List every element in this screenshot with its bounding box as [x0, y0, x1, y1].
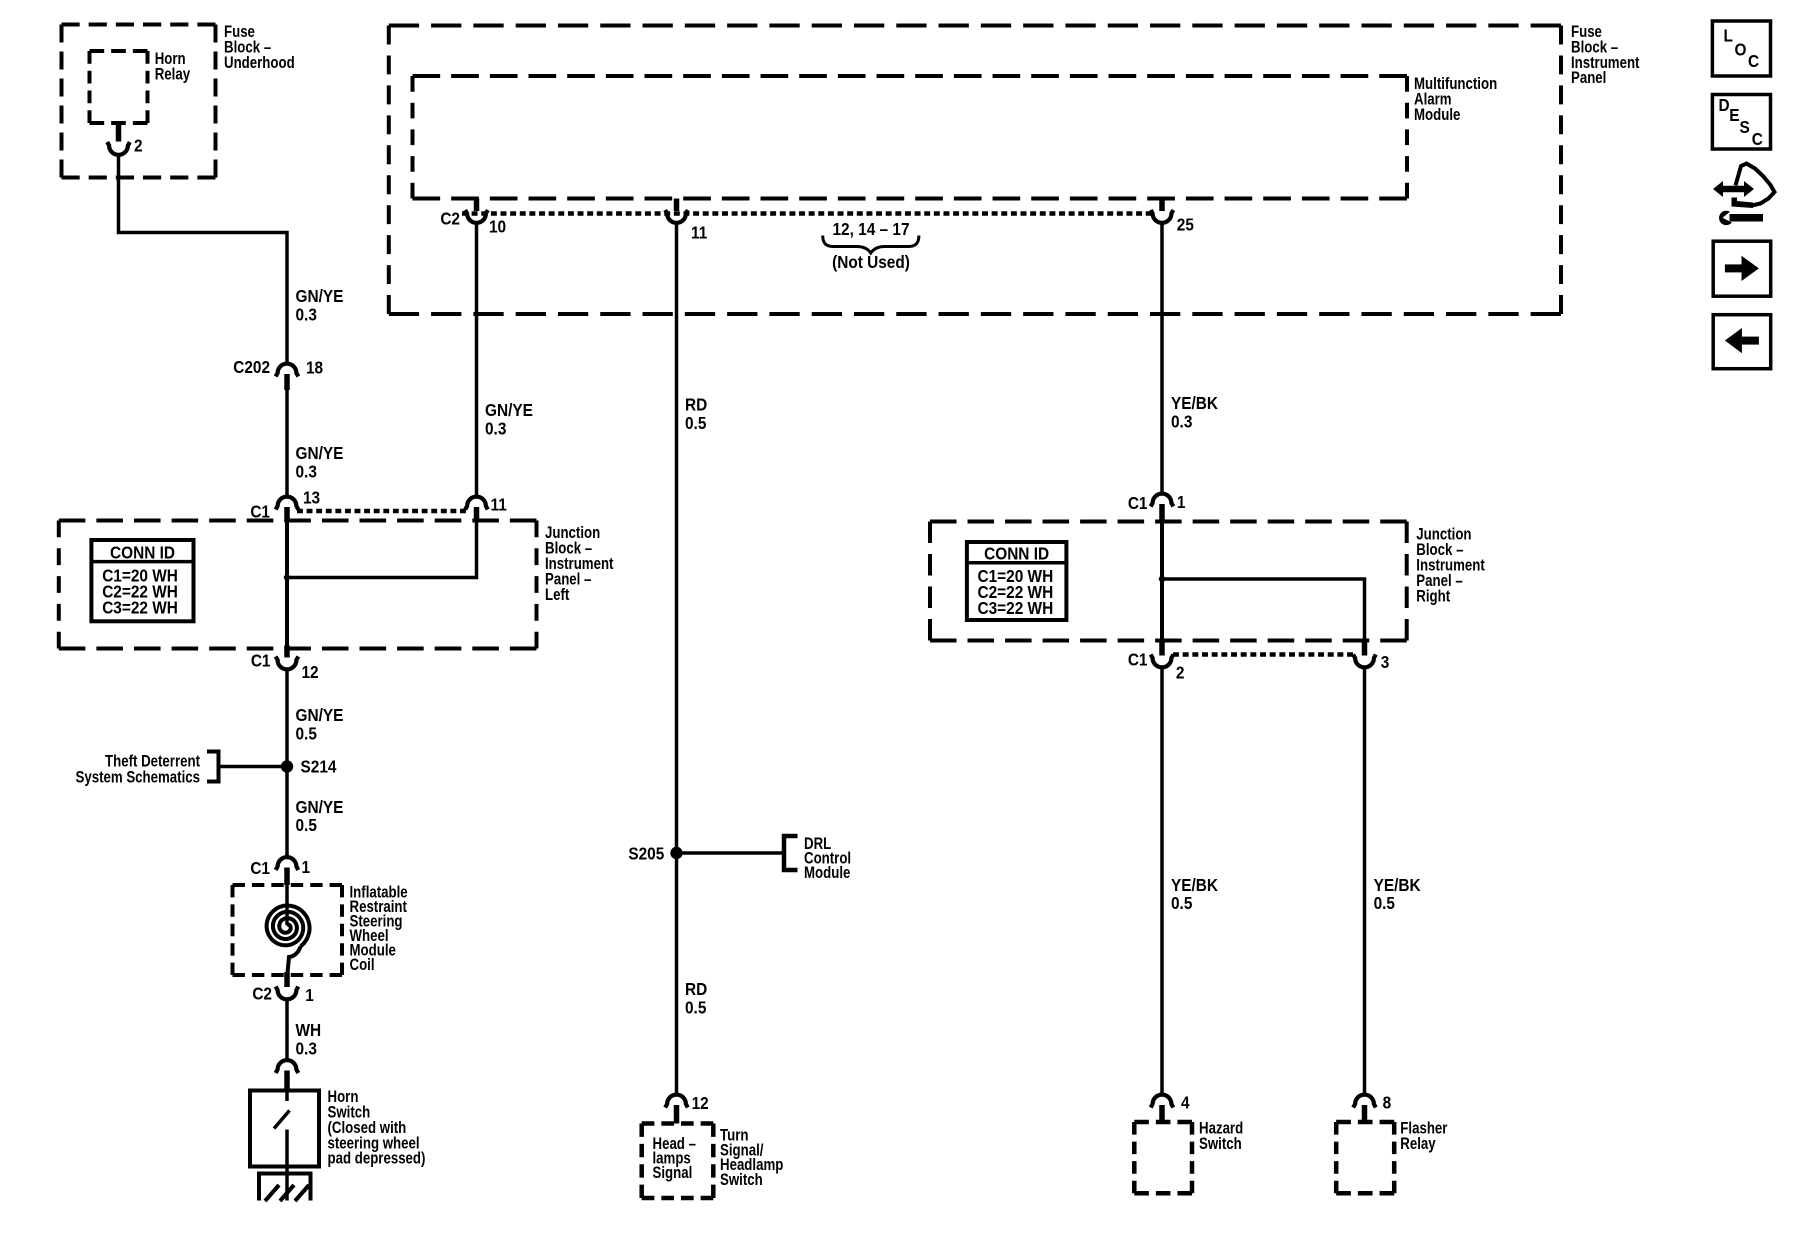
coil spiral symbol: [267, 885, 310, 973]
wire: C2/1 to horn switch: [285, 1000, 289, 1060]
svg-text:Signal: Signal: [653, 1164, 693, 1183]
label C2 (coil): [252, 985, 272, 1004]
dashed link C1/13 to pin 11: [297, 509, 466, 514]
svg-text:0.5: 0.5: [296, 816, 317, 835]
svg-text:1: 1: [1177, 493, 1186, 512]
svg-text:8: 8: [1383, 1094, 1392, 1113]
pin number 18: [306, 359, 323, 378]
connector C1 pin 12 stub: [284, 646, 290, 658]
label (Not Used): [832, 253, 910, 272]
svg-text:1: 1: [305, 986, 314, 1005]
label: Junction Block - Instrument Panel - Left: [545, 524, 613, 605]
wire label GN/YE 0.3 (lower): [296, 444, 344, 481]
connector C1 pin 1 arc: [276, 857, 299, 870]
connector C2 pin 1 cup: [276, 987, 299, 1000]
svg-text:0.5: 0.5: [1374, 894, 1395, 913]
svg-text:S214: S214: [301, 758, 338, 777]
svg-text:O: O: [1735, 41, 1747, 60]
svg-text:C1: C1: [1128, 494, 1148, 513]
svg-text:11: 11: [491, 496, 507, 515]
svg-text:Relay: Relay: [155, 65, 191, 84]
pin number 1 (right): [1177, 493, 1186, 512]
junction block left internal wire (vertical): [285, 521, 289, 649]
wire: C1/2 down to hazard switch: [1160, 668, 1164, 1095]
conn id table (right): [967, 542, 1067, 620]
wire: pin 3 down to flasher relay: [1363, 668, 1367, 1095]
junction block right internal wire (vertical): [1160, 521, 1164, 641]
splice S205: [670, 847, 682, 859]
wire label GN/YE 0.5 (below S214): [296, 798, 344, 835]
svg-text:4: 4: [1181, 1094, 1190, 1113]
svg-text:pad depressed): pad depressed): [328, 1149, 426, 1168]
label C1 (pin13): [250, 503, 270, 522]
junction node (right block): [1159, 576, 1165, 582]
svg-text:0.3: 0.3: [296, 1039, 317, 1058]
label: Fuse Block - Underhood: [224, 23, 295, 73]
connector C1 pin 12 cup: [276, 657, 299, 670]
svg-text:0.5: 0.5: [685, 414, 706, 433]
label 12, 14 - 17: [832, 220, 909, 239]
junction block right branch wire: [1162, 579, 1365, 641]
svg-text:25: 25: [1177, 216, 1194, 235]
svg-text:Left: Left: [545, 585, 569, 604]
label C1 (pin12): [251, 652, 271, 671]
pin number 2 (right): [1176, 664, 1185, 683]
theft deterrent bracket: [207, 752, 219, 782]
svg-text:2: 2: [1176, 664, 1185, 683]
svg-text:C: C: [1752, 130, 1763, 149]
svg-text:C2: C2: [252, 985, 272, 1004]
flasher relay connector arc: [1353, 1095, 1376, 1108]
fuse block - underhood (dashed box): [62, 25, 216, 178]
wire: horn relay pin 2 to C202: [119, 155, 288, 362]
svg-text:D: D: [1719, 96, 1730, 115]
svg-text:YE/BK: YE/BK: [1171, 876, 1218, 895]
connector C1 pin 13 arc: [276, 497, 299, 510]
junction pin 3 stub: [1362, 641, 1368, 656]
svg-text:13: 13: [303, 489, 320, 508]
pin number 2: [134, 137, 143, 156]
svg-text:WH: WH: [296, 1021, 322, 1040]
wire label WH 0.3: [296, 1021, 322, 1058]
connector C1 pin 1 stub (right): [1159, 504, 1165, 521]
svg-text:11: 11: [691, 224, 707, 243]
label S214: [301, 758, 338, 777]
wire label YE/BK 0.3: [1171, 394, 1218, 431]
hazard switch (dashed box): [1134, 1122, 1192, 1193]
svg-text:3: 3: [1381, 653, 1390, 672]
wire label GN/YE 0.5 (above S214): [296, 706, 344, 743]
svg-text:GN/YE: GN/YE: [296, 287, 344, 306]
svg-text:E: E: [1729, 106, 1739, 125]
svg-text:0.5: 0.5: [296, 724, 317, 743]
not-used brace: [823, 236, 919, 254]
hazard switch connector arc: [1151, 1095, 1174, 1108]
svg-text:CONN ID: CONN ID: [110, 543, 175, 562]
conn id table (left): [91, 540, 193, 621]
label: Horn Switch (Closed with steering wheel pad depressed): [328, 1088, 426, 1169]
label C1 (pin1): [250, 859, 270, 878]
pin number 12 (headlamps): [692, 1094, 709, 1113]
module pin 11 stub: [674, 199, 680, 212]
horn switch box: [250, 1091, 319, 1167]
pin number 11 (module): [691, 224, 707, 243]
pin number 3: [1381, 653, 1390, 672]
fuse block - instrument panel (dashed box): [389, 26, 1561, 315]
label S205: [628, 845, 664, 864]
pin number 10: [489, 218, 506, 237]
svg-text:0.5: 0.5: [1171, 894, 1192, 913]
junction pin 11 arc: [465, 497, 488, 510]
svg-text:0.5: 0.5: [685, 998, 706, 1017]
label: Junction Block - Instrument Panel - Right: [1416, 525, 1484, 606]
svg-text:2: 2: [134, 137, 143, 156]
wire: module pin 25 down to C1/1 right: [1160, 224, 1164, 494]
wire label GN/YE 0.3 (pin10 wire): [485, 401, 533, 438]
svg-text:System Schematics: System Schematics: [76, 768, 200, 787]
flasher relay connector stub: [1362, 1105, 1368, 1122]
connector C202 stub: [284, 374, 290, 390]
horn relay (dashed box): [90, 51, 148, 123]
connector C1 pin 1 stub: [284, 868, 290, 886]
wire: S205 to DRL bracket: [680, 851, 785, 855]
svg-text:YE/BK: YE/BK: [1374, 876, 1421, 895]
svg-text:Underhood: Underhood: [224, 53, 295, 72]
label C1 (right pin1): [1128, 494, 1148, 513]
svg-text:YE/BK: YE/BK: [1171, 394, 1218, 413]
head-lamps signal (dashed box): [642, 1124, 714, 1199]
svg-text:C1: C1: [251, 652, 271, 671]
wire: C202 to C1/13: [285, 390, 289, 496]
horn relay pin 2 stub: [116, 123, 122, 142]
drl bracket: [784, 836, 798, 870]
svg-text:Coil: Coil: [350, 956, 375, 975]
connector C2 pin 1 stub: [284, 972, 290, 987]
svg-text:18: 18: [306, 359, 323, 378]
wire label RD 0.5 (upper): [685, 396, 707, 433]
svg-text:12: 12: [302, 663, 319, 682]
label: Turn Signal/Headlamp Switch: [720, 1126, 783, 1189]
connector C1 pin 13 stub: [284, 507, 290, 521]
horn switch blade: [274, 1111, 290, 1129]
label: Flasher Relay: [1400, 1119, 1447, 1153]
wire label YE/BK 0.5 (left): [1171, 876, 1218, 913]
svg-text:C3=22 WH: C3=22 WH: [978, 599, 1054, 618]
icon box DESC: [1712, 95, 1770, 150]
module pin 25 stub: [1159, 199, 1165, 212]
pin number 1 (coil): [302, 858, 311, 877]
label C1 (pin2): [1128, 651, 1148, 670]
dashed link C1/2 to pin 3: [1173, 652, 1353, 657]
module pin 25 cup: [1151, 210, 1174, 223]
svg-text:S205: S205: [628, 845, 664, 864]
icon box arrow left: [1713, 315, 1771, 369]
inflatable restraint coil (dashed box): [233, 885, 343, 975]
svg-text:Right: Right: [1416, 587, 1450, 606]
junction node (left block): [284, 574, 290, 580]
svg-text:Module: Module: [1414, 106, 1460, 125]
wire: module pin 10 down to junction pin 11: [475, 224, 479, 497]
icon box arrow right: [1713, 241, 1771, 296]
svg-text:C2: C2: [440, 210, 460, 229]
label C202: [233, 358, 270, 377]
pin number 12: [302, 663, 319, 682]
pin number 25: [1177, 216, 1194, 235]
connector C1 pin 2 cup: [1151, 655, 1174, 668]
splice S214: [281, 760, 293, 772]
svg-text:Panel: Panel: [1571, 69, 1606, 88]
headlamps signal connector arc: [665, 1095, 688, 1108]
junction block - instrument panel - right (dashed box): [930, 522, 1407, 641]
label: Fuse Block - Instrument Panel: [1571, 23, 1639, 88]
svg-text:RD: RD: [685, 980, 707, 999]
svg-text:C: C: [1748, 52, 1759, 71]
horn switch connector stub: [284, 1071, 290, 1091]
wire: module pin 11 down to headlamps signal: [675, 224, 679, 1095]
svg-text:C202: C202: [233, 358, 270, 377]
module pin 10 stub: [474, 199, 480, 212]
multifunction alarm module (dashed box): [413, 76, 1408, 199]
headlamps signal connector stub: [674, 1105, 680, 1124]
icon box LOC: [1712, 21, 1770, 76]
svg-text:1: 1: [302, 858, 311, 877]
label: Multifunction Alarm Module: [1414, 75, 1497, 125]
wire: C1/12 to S214: [285, 670, 289, 762]
svg-text:0.3: 0.3: [1171, 412, 1192, 431]
wire: S214 to C1/1: [285, 770, 289, 856]
svg-text:GN/YE: GN/YE: [296, 706, 344, 725]
svg-text:0.3: 0.3: [296, 462, 317, 481]
svg-text:GN/YE: GN/YE: [296, 798, 344, 817]
dotted bus line (module pins): [462, 211, 1152, 216]
svg-text:10: 10: [489, 218, 506, 237]
svg-text:0.3: 0.3: [485, 419, 506, 438]
horn switch contact (lower): [285, 1130, 289, 1167]
label: Theft Deterrent System Schematics: [76, 752, 200, 787]
svg-text:GN/YE: GN/YE: [485, 401, 533, 420]
pin number 1 (below coil): [305, 986, 314, 1005]
junction block - instrument panel - left (dashed box): [59, 521, 537, 649]
label: Horn Relay: [155, 50, 191, 84]
horn relay pin 2 connector: [107, 142, 130, 155]
svg-text:Switch: Switch: [1199, 1134, 1242, 1153]
junction pin 11 stub: [474, 507, 480, 521]
pin number 13: [303, 489, 320, 508]
label: DRL Control Module: [804, 835, 851, 883]
svg-text:C1: C1: [250, 859, 270, 878]
svg-text:Relay: Relay: [1400, 1134, 1436, 1153]
junction block left branch wire: [290, 521, 477, 578]
hazard switch connector stub: [1159, 1105, 1165, 1122]
connector C1 pin 2 stub: [1159, 641, 1165, 656]
pin number 11 (junction): [491, 496, 507, 515]
svg-text:12, 14 – 17: 12, 14 – 17: [832, 220, 909, 239]
horn switch connector arc: [276, 1060, 299, 1073]
module pin 10 cup: [465, 210, 488, 223]
horn switch contact (upper): [285, 1091, 289, 1102]
wire label YE/BK 0.5 (right): [1374, 876, 1421, 913]
icon navigation arrow with wrench: [1713, 164, 1775, 226]
svg-text:CONN ID: CONN ID: [984, 544, 1049, 563]
junction pin 3 cup: [1353, 655, 1376, 668]
svg-text:12: 12: [692, 1094, 709, 1113]
label: Inflatable Restraint Steering Wheel Module Coil: [350, 883, 408, 974]
svg-text:RD: RD: [685, 396, 707, 415]
module pin 11 cup: [665, 210, 688, 223]
wire label RD 0.5 (lower): [685, 980, 707, 1017]
label: Hazard Switch: [1199, 1119, 1243, 1153]
connector C1 pin 1 arc (right): [1151, 494, 1174, 507]
ground symbol: [259, 1167, 311, 1202]
flasher relay (dashed box): [1336, 1122, 1394, 1193]
wire label GN/YE 0.3 (upper): [296, 287, 344, 324]
connector C202 arc: [276, 364, 299, 377]
svg-text:0.3: 0.3: [296, 305, 317, 324]
label: Head-lamps Signal (inside box): [653, 1135, 696, 1183]
svg-text:GN/YE: GN/YE: [296, 444, 344, 463]
svg-text:S: S: [1740, 118, 1750, 137]
svg-text:C1: C1: [1128, 651, 1148, 670]
svg-text:L: L: [1724, 27, 1733, 46]
svg-text:(Not Used): (Not Used): [832, 253, 910, 272]
label C2 (module): [440, 210, 460, 229]
svg-text:C3=22 WH: C3=22 WH: [102, 599, 178, 618]
wire: bracket to S214: [219, 765, 285, 769]
pin number 8: [1383, 1094, 1392, 1113]
svg-text:Module: Module: [804, 864, 850, 883]
svg-text:Switch: Switch: [720, 1170, 763, 1189]
pin number 4: [1181, 1094, 1190, 1113]
